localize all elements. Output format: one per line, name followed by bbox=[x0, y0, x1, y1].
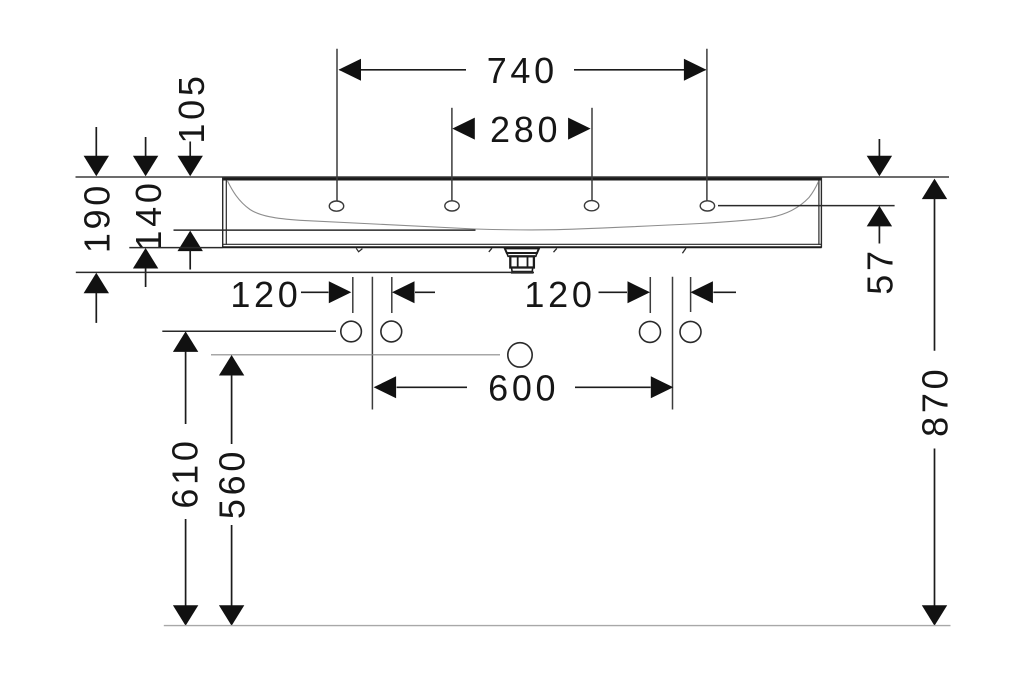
dimension 600 line and arrows bbox=[374, 376, 674, 398]
dimension text 870 (rotated) bbox=[914, 366, 955, 437]
wall hole 3 centerline bbox=[649, 277, 651, 313]
drain wall circle bbox=[508, 343, 532, 367]
washbasin rim top extension line bbox=[76, 176, 950, 178]
57 reference line (overflow level) bbox=[718, 205, 895, 207]
washbasin left front edge (double line) bbox=[223, 178, 227, 248]
underside tick at x555 bbox=[554, 248, 557, 252]
wall hole 2 centerline bbox=[391, 277, 393, 313]
extension line above faucet hole 3 bbox=[591, 108, 593, 201]
dimension text 190 (rotated) bbox=[76, 182, 117, 253]
wall hole 4 centerline bbox=[690, 277, 692, 312]
610 reference line bbox=[162, 330, 336, 332]
105 reference line bbox=[174, 229, 476, 231]
faucet hole 3 on deck bbox=[584, 201, 598, 211]
wall hole 4 circle bbox=[680, 321, 701, 342]
dimension 105 leader and arrows bbox=[178, 142, 203, 270]
dimension text 140 (rotated) bbox=[128, 179, 169, 250]
svg-text:610: 610 bbox=[165, 437, 206, 508]
dimension 120 left line and arrows bbox=[301, 281, 435, 303]
right pair centerline bbox=[672, 277, 674, 410]
svg-text:600: 600 bbox=[488, 368, 559, 409]
dimension 560 line and arrows bbox=[219, 355, 244, 626]
washbasin bottom edge (double line) bbox=[222, 244, 821, 247]
wall hole 1 circle bbox=[341, 321, 362, 342]
svg-text:870: 870 bbox=[914, 366, 955, 437]
extension line above faucet hole 2 bbox=[451, 108, 453, 201]
svg-text:57: 57 bbox=[860, 247, 901, 294]
dimension 140 leader and arrows bbox=[133, 137, 158, 287]
dimension text 600 bbox=[488, 368, 559, 409]
svg-text:190: 190 bbox=[76, 182, 117, 253]
dimension 190 leader and arrows bbox=[84, 127, 109, 323]
wall hole 3 circle bbox=[640, 321, 661, 342]
faucet hole 4 on deck bbox=[700, 201, 714, 211]
underside tick at x684 bbox=[682, 248, 686, 253]
extension line above faucet hole 1 bbox=[336, 49, 338, 201]
140 reference line (bottom edge extension) bbox=[129, 247, 222, 249]
wall hole 1 centerline bbox=[352, 277, 354, 313]
svg-text:280: 280 bbox=[490, 109, 561, 150]
560 reference line bbox=[211, 354, 500, 356]
underside tick at x490 bbox=[489, 248, 492, 252]
drain fitting under basin bbox=[505, 248, 539, 272]
faucet hole 2 on deck bbox=[445, 201, 459, 211]
washbasin interior bowl curve bbox=[228, 181, 819, 230]
dimension text 740 bbox=[487, 50, 558, 91]
washbasin right rear edge (double line) bbox=[819, 178, 822, 248]
dimension 280 arrows bbox=[452, 118, 590, 140]
dimension text 610 (rotated) bbox=[165, 437, 206, 508]
dimension 740 line and arrows bbox=[339, 59, 707, 81]
faucet hole 1 on deck bbox=[329, 201, 343, 211]
svg-text:140: 140 bbox=[128, 179, 169, 250]
svg-text:120: 120 bbox=[230, 274, 301, 315]
dimension text 120 right bbox=[524, 274, 595, 315]
svg-text:120: 120 bbox=[524, 274, 595, 315]
extension line above faucet hole 4 bbox=[706, 49, 708, 201]
washbasin rim top thick edge bbox=[222, 178, 822, 181]
dimension 57 leader and arrows bbox=[867, 139, 892, 244]
left pair centerline bbox=[371, 277, 373, 410]
wall hole 2 circle bbox=[381, 321, 402, 342]
dimension text 280 bbox=[490, 109, 561, 150]
dimension 870 line and arrows bbox=[922, 179, 947, 626]
floor line bbox=[164, 625, 951, 627]
underside tick at x357 bbox=[356, 248, 362, 251]
dimension text 105 (rotated) bbox=[171, 72, 212, 143]
dimension text 560 (rotated) bbox=[212, 448, 253, 519]
dimension 120 right line and arrows bbox=[599, 281, 737, 303]
svg-text:560: 560 bbox=[212, 448, 253, 519]
dimension 610 line and arrows bbox=[173, 331, 198, 625]
svg-text:740: 740 bbox=[487, 50, 558, 91]
svg-text:105: 105 bbox=[171, 72, 212, 143]
190 reference line (drain bottom extension) bbox=[76, 271, 534, 273]
dimension text 57 (rotated) bbox=[860, 247, 901, 294]
dimension text 120 left bbox=[230, 274, 301, 315]
